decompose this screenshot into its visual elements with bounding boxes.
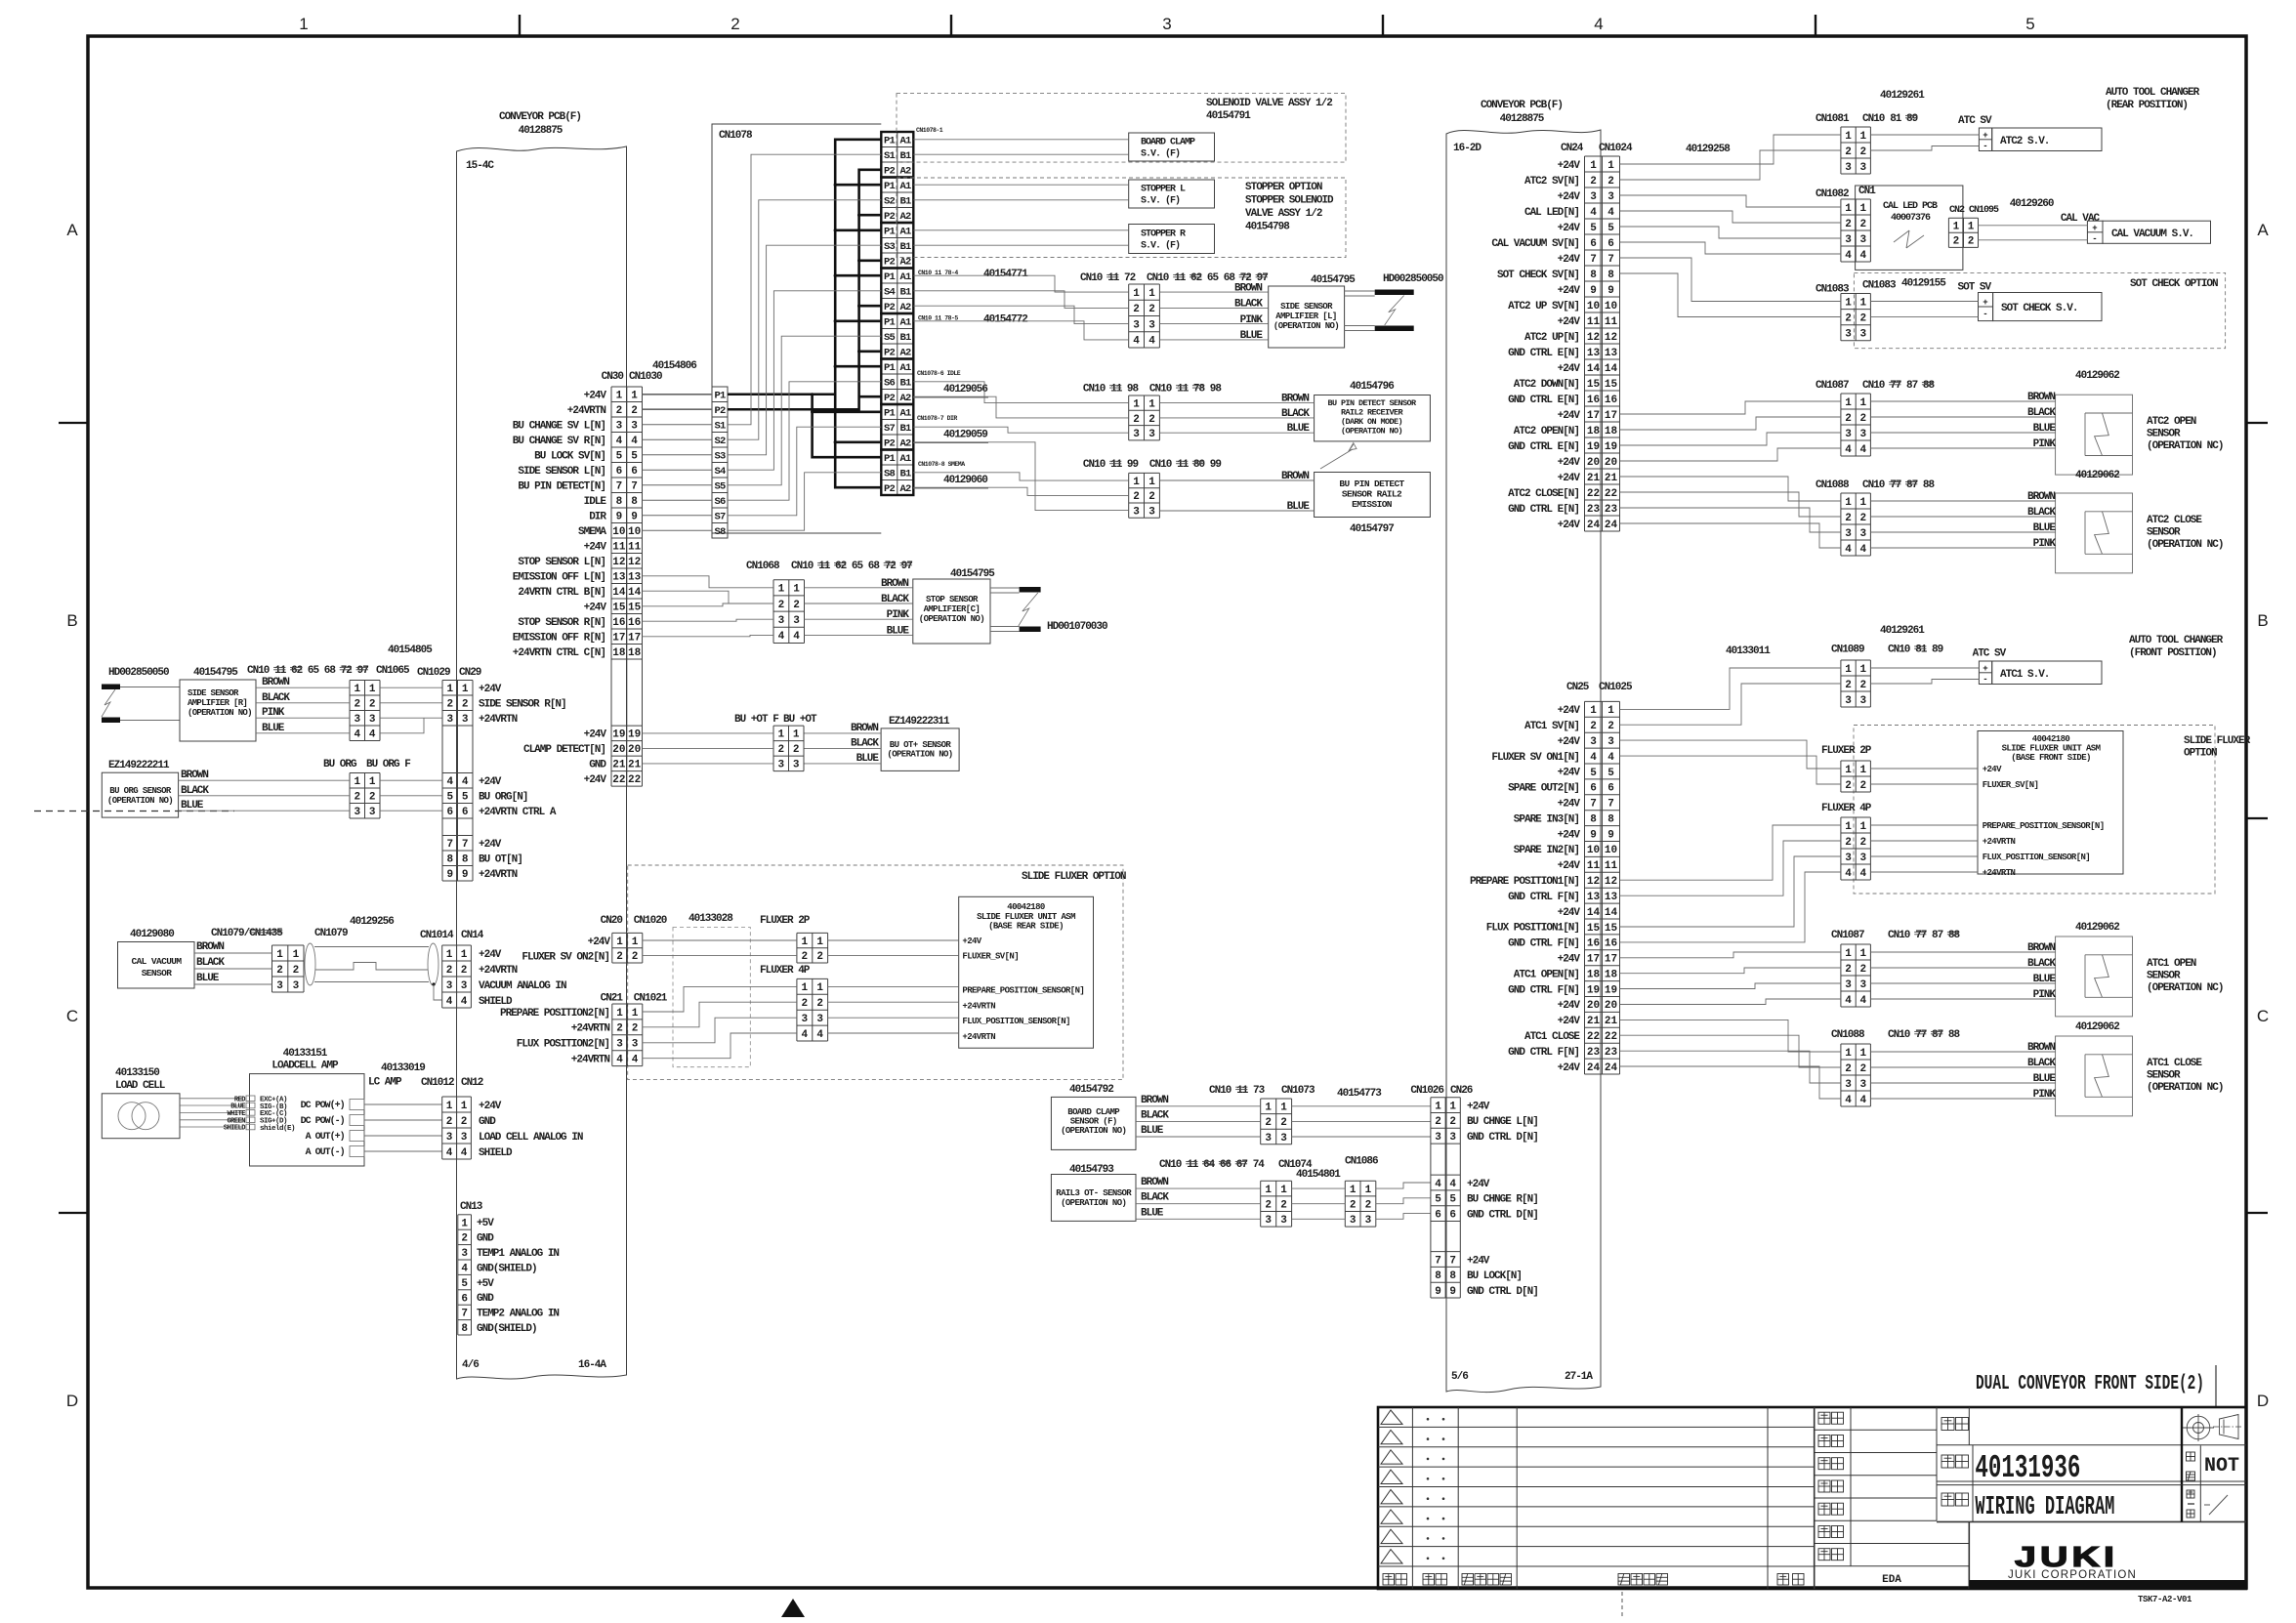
svg-text:+24V: +24V	[962, 936, 981, 946]
svg-text:15-4C: 15-4C	[466, 160, 494, 172]
svg-text:P1: P1	[884, 408, 896, 420]
svg-text:IDLE: IDLE	[584, 496, 607, 508]
svg-text:2: 2	[1859, 964, 1866, 976]
svg-text:68: 68	[324, 665, 337, 677]
ATC2 close sensor	[2056, 493, 2224, 573]
svg-text:CN1078-7 DIR: CN1078-7 DIR	[917, 415, 957, 422]
svg-text:CN10: CN10	[1149, 383, 1172, 395]
svg-text:5: 5	[631, 451, 638, 463]
svg-text:7: 7	[616, 481, 623, 493]
svg-text:40129059: 40129059	[943, 430, 987, 441]
connector CN1012 / CN12	[421, 1077, 583, 1159]
svg-text:BLACK: BLACK	[851, 737, 879, 749]
svg-text:3: 3	[1845, 853, 1852, 864]
svg-text:40129261: 40129261	[1880, 90, 1925, 102]
part name WIRING DIAGRAM	[1975, 1493, 2114, 1522]
svg-text:3: 3	[1133, 319, 1140, 331]
svg-text:A1: A1	[899, 362, 911, 374]
svg-text:3: 3	[1350, 1215, 1357, 1227]
svg-text:27-1A: 27-1A	[1565, 1371, 1593, 1383]
svg-text:A OUT(-): A OUT(-)	[306, 1146, 345, 1158]
connector CN2 / CN1095	[1948, 198, 2100, 248]
svg-text:6: 6	[616, 466, 623, 478]
svg-text:GND CTRL E[N]: GND CTRL E[N]	[1508, 348, 1579, 359]
svg-text:3: 3	[616, 1039, 623, 1051]
svg-text:2: 2	[1859, 1063, 1866, 1075]
svg-text:ATC SV: ATC SV	[1973, 648, 2007, 660]
JUKI logo	[1969, 1542, 2246, 1589]
svg-text:2: 2	[1859, 146, 1866, 158]
svg-text:CN1079/CN1435: CN1079/CN1435	[211, 928, 283, 939]
svg-text:9: 9	[1449, 1286, 1456, 1298]
svg-text:BU PIN DETECT SENSOR: BU PIN DETECT SENSOR	[1327, 398, 1417, 408]
label 40129062 ATC2 close	[2075, 470, 2119, 481]
svg-text:+24V: +24V	[1558, 860, 1581, 872]
bottom center fold marks	[781, 1592, 1622, 1618]
svg-text:+24VRTN CTRL A: +24VRTN CTRL A	[479, 807, 557, 818]
svg-text:40129260: 40129260	[2010, 198, 2054, 210]
svg-text:40129080: 40129080	[130, 929, 174, 940]
fluxer 2P connector front	[1821, 745, 1872, 792]
approval rows	[1815, 1407, 1970, 1566]
rail3 OT- sensor box	[1051, 1164, 1136, 1221]
svg-text:4: 4	[1859, 444, 1866, 456]
label 40129062 ATC1 close	[2075, 1021, 2119, 1033]
svg-text:13: 13	[1605, 892, 1618, 903]
svg-text:3: 3	[276, 980, 283, 992]
projection symbols	[2183, 1414, 2242, 1441]
BU ORG sensor box	[102, 760, 178, 817]
svg-text:1: 1	[616, 1008, 623, 1020]
svg-text:STOPPER L: STOPPER L	[1141, 185, 1186, 195]
svg-text:A2: A2	[899, 211, 911, 223]
svg-text:ATC1 CLOSE: ATC1 CLOSE	[2147, 1058, 2202, 1069]
wires CN30 rows to CN1068	[643, 576, 774, 637]
svg-text:6: 6	[462, 807, 469, 818]
svg-text:1: 1	[369, 776, 376, 788]
svg-text:ATC1 OPEN: ATC1 OPEN	[2147, 958, 2196, 970]
svg-text:9: 9	[1435, 1286, 1441, 1298]
connector CN1081	[1816, 113, 1992, 174]
svg-text:1: 1	[616, 391, 623, 402]
svg-text:2: 2	[1607, 176, 1614, 187]
svg-text:20: 20	[1605, 457, 1617, 469]
svg-text:SOT SV: SOT SV	[1958, 282, 1992, 294]
svg-text:5: 5	[616, 451, 623, 463]
svg-text:40154796: 40154796	[1350, 381, 1394, 393]
svg-text:22: 22	[1587, 1031, 1600, 1043]
svg-text:1: 1	[461, 1101, 468, 1112]
svg-text:CN1026: CN1026	[1410, 1085, 1443, 1097]
svg-text:RAIL3 OT- SENSOR: RAIL3 OT- SENSOR	[1056, 1188, 1132, 1198]
svg-text:B1: B1	[899, 287, 911, 299]
svg-text:LOAD CELL: LOAD CELL	[115, 1080, 166, 1092]
svg-text:40154806: 40154806	[652, 360, 696, 372]
svg-text:7: 7	[1435, 1255, 1441, 1267]
label 40129062 ATC2 open	[2075, 370, 2119, 382]
svg-text:PREPARE_POSITION_SENSOR[N]: PREPARE_POSITION_SENSOR[N]	[962, 985, 1084, 995]
svg-text:S.V. (F): S.V. (F)	[1141, 240, 1180, 252]
svg-text:40133019: 40133019	[381, 1062, 425, 1074]
wires CN24 to ATC2 valve and sensor connectors	[1620, 135, 1841, 548]
svg-text:13: 13	[1587, 892, 1601, 903]
svg-text:13: 13	[1605, 348, 1618, 359]
connector CN1086 table	[1345, 1181, 1376, 1227]
svg-text:S3: S3	[714, 451, 726, 463]
labels HD002850050 40154795 CN1065 header	[108, 665, 410, 679]
svg-text:EMISSION OFF R[N]: EMISSION OFF R[N]	[513, 633, 605, 645]
svg-text:40154792: 40154792	[1069, 1084, 1113, 1096]
svg-text:2: 2	[446, 1116, 453, 1128]
svg-text:SIDE SENSOR: SIDE SENSOR	[188, 688, 239, 698]
svg-text:GND: GND	[589, 760, 606, 771]
svg-text:GND CTRL E[N]: GND CTRL E[N]	[1508, 441, 1579, 453]
svg-text:2: 2	[1280, 1117, 1287, 1129]
svg-text:16: 16	[1605, 395, 1617, 406]
svg-text:6: 6	[461, 1293, 468, 1305]
svg-text:17: 17	[1587, 410, 1600, 422]
svg-text:P1: P1	[884, 181, 896, 192]
svg-text:4: 4	[461, 996, 468, 1008]
svg-text:4: 4	[446, 996, 453, 1008]
svg-text:2: 2	[1365, 1200, 1372, 1212]
svg-text:HD001070030: HD001070030	[1047, 621, 1107, 633]
svg-text:2: 2	[1859, 780, 1866, 792]
svg-text:PREPARE_POSITION_SENSOR[N]: PREPARE_POSITION_SENSOR[N]	[1983, 821, 2105, 831]
svg-text:SENSOR: SENSOR	[2147, 1070, 2181, 1082]
svg-text:15: 15	[1605, 379, 1618, 391]
svg-text:11: 11	[1107, 272, 1120, 284]
svg-text:11: 11	[1587, 316, 1601, 328]
label 40129261 ATC1	[1880, 625, 1925, 637]
svg-text:SENSOR: SENSOR	[142, 968, 173, 978]
svg-text:40154798: 40154798	[1245, 222, 1290, 233]
svg-text:GND CTRL F[N]: GND CTRL F[N]	[1508, 892, 1579, 903]
svg-text:PREPARE POSITION1[N]: PREPARE POSITION1[N]	[1470, 876, 1579, 888]
amp outputs to CN1012	[301, 1100, 442, 1159]
svg-text:2: 2	[1845, 219, 1852, 230]
svg-text:1: 1	[1845, 664, 1852, 676]
svg-text:OPTION: OPTION	[2184, 748, 2217, 760]
svg-text:18: 18	[1605, 426, 1618, 437]
svg-text:(OPERATION NO): (OPERATION NO)	[919, 614, 984, 624]
svg-text:P2: P2	[884, 302, 896, 313]
svg-text:40129062: 40129062	[2075, 470, 2119, 481]
BU pin detect sensor rail2 emission box	[1315, 473, 1431, 536]
bus junction dots	[811, 184, 860, 444]
svg-text:+24V: +24V	[1558, 160, 1581, 172]
svg-text:A2: A2	[899, 438, 911, 450]
svg-text:2: 2	[1265, 1200, 1272, 1212]
arrow between receiver and emission	[1320, 443, 1357, 470]
svg-text:CN26: CN26	[1450, 1085, 1473, 1097]
svg-text:3: 3	[369, 807, 376, 818]
svg-text:P2: P2	[884, 211, 896, 223]
connector CN1074 table	[1261, 1181, 1292, 1227]
svg-text:14: 14	[1605, 363, 1618, 375]
slide fluxer option dashed box rear	[628, 865, 1126, 1080]
svg-text:12: 12	[1605, 876, 1617, 888]
CAL vacuum sensor box	[118, 929, 195, 988]
svg-text:17: 17	[612, 633, 625, 645]
svg-text:+24V: +24V	[479, 949, 502, 961]
svg-text:BU CHANGE SV L[N]: BU CHANGE SV L[N]	[513, 421, 605, 433]
svg-text:15: 15	[1587, 379, 1601, 391]
svg-text:SIDE SENSOR R[N]: SIDE SENSOR R[N]	[479, 699, 566, 711]
svg-text:A1: A1	[899, 408, 911, 420]
svg-text:2: 2	[1449, 1116, 1456, 1128]
svg-text:9: 9	[462, 869, 469, 881]
svg-text:CN10: CN10	[1888, 930, 1910, 941]
svg-text:shield(E): shield(E)	[260, 1125, 295, 1133]
svg-text:2: 2	[354, 792, 360, 804]
svg-text:3: 3	[1859, 429, 1866, 440]
svg-text:40129062: 40129062	[2075, 370, 2119, 382]
svg-text:(OPERATION NC): (OPERATION NC)	[2147, 982, 2223, 994]
board clamp sensor F box	[1051, 1084, 1136, 1149]
connector CN1073 header	[1209, 1085, 1382, 1100]
svg-text:2: 2	[1859, 313, 1866, 325]
svg-text:1: 1	[1968, 222, 1975, 233]
svg-text:ATC2 UP[N]: ATC2 UP[N]	[1524, 332, 1579, 344]
svg-text:2: 2	[1148, 491, 1155, 503]
svg-text:3: 3	[801, 1014, 808, 1025]
load cell wires	[180, 1096, 295, 1133]
svg-text:A: A	[66, 221, 78, 239]
svg-text:BLACK: BLACK	[262, 692, 290, 704]
svg-text:3: 3	[1845, 528, 1852, 540]
svg-text:8: 8	[446, 854, 453, 866]
svg-text:11: 11	[274, 665, 287, 677]
svg-text:D: D	[66, 1392, 78, 1410]
wires CN1065 to CN1029	[380, 687, 442, 733]
svg-text:2: 2	[616, 405, 623, 417]
column labels and ticks	[299, 15, 2034, 38]
BU ORG / BU ORG F table	[323, 759, 410, 818]
svg-text:1: 1	[1607, 160, 1614, 172]
wires CN1068 to stop sensor amp	[805, 578, 913, 638]
svg-text:5: 5	[1607, 768, 1614, 779]
svg-text:81: 81	[1915, 645, 1928, 656]
svg-text:S5: S5	[714, 481, 726, 493]
svg-text:67: 67	[1236, 1159, 1248, 1171]
svg-text:2: 2	[1280, 1200, 1287, 1212]
svg-text:3: 3	[369, 714, 376, 726]
svg-text:5: 5	[1435, 1194, 1441, 1206]
svg-text:B: B	[66, 611, 77, 630]
svg-text:AMPLIFIER [R]: AMPLIFIER [R]	[188, 698, 247, 708]
svg-text:BLACK: BLACK	[196, 957, 225, 969]
svg-text:PREPARE POSITION2[N]: PREPARE POSITION2[N]	[500, 1008, 609, 1020]
svg-text:3: 3	[446, 1132, 453, 1144]
stopper R solenoid valve	[1129, 225, 1215, 254]
title block outer frame	[1378, 1407, 2246, 1589]
svg-text:+24V: +24V	[1558, 1062, 1581, 1074]
svg-text:16-2D: 16-2D	[1453, 143, 1482, 154]
svg-text:2: 2	[793, 600, 800, 611]
svg-text:+24V: +24V	[479, 684, 502, 695]
svg-text:1: 1	[354, 684, 360, 695]
svg-text:4: 4	[1590, 207, 1597, 219]
svg-text:62: 62	[835, 561, 847, 572]
svg-text:VACUUM ANALOG IN: VACUUM ANALOG IN	[479, 980, 566, 992]
svg-text:3: 3	[1435, 1132, 1441, 1144]
svg-text:5: 5	[462, 792, 469, 804]
svg-text:AUTO TOOL CHANGER: AUTO TOOL CHANGER	[2106, 87, 2200, 99]
svg-text:+24V: +24V	[1558, 705, 1581, 717]
svg-text:1: 1	[1845, 297, 1852, 309]
svg-text:40129062: 40129062	[2075, 1021, 2119, 1033]
connector CN1014 / CN14	[420, 930, 566, 1008]
svg-text:2: 2	[446, 965, 453, 977]
svg-text:P1: P1	[884, 362, 896, 374]
svg-text:BU ORG[N]: BU ORG[N]	[479, 792, 527, 804]
svg-text:+: +	[1983, 298, 1987, 308]
svg-text:A2: A2	[899, 483, 911, 495]
connector CN1068 header	[746, 561, 995, 580]
svg-text:3: 3	[1590, 191, 1597, 203]
svg-text:+24V: +24V	[1558, 1016, 1581, 1027]
svg-text:11: 11	[612, 542, 626, 554]
svg-text:1: 1	[1845, 497, 1852, 509]
svg-text:CAL VACUUM S.V.: CAL VACUUM S.V.	[2111, 229, 2193, 240]
svg-text:CN1024: CN1024	[1599, 143, 1633, 154]
svg-text:9: 9	[1590, 829, 1597, 841]
svg-text:3: 3	[631, 421, 638, 433]
svg-text:11: 11	[1174, 272, 1187, 284]
svg-text:CN10: CN10	[1147, 272, 1169, 284]
svg-text:-: -	[2092, 234, 2097, 244]
left conveyor PCB block 40128875	[457, 111, 627, 1379]
svg-text:6: 6	[1435, 1209, 1441, 1221]
svg-text:3: 3	[1607, 736, 1614, 748]
svg-text:10: 10	[612, 526, 625, 538]
svg-text:+24V: +24V	[584, 774, 607, 786]
svg-text:S.V. (F): S.V. (F)	[1141, 195, 1180, 207]
svg-text:6: 6	[1607, 783, 1614, 795]
svg-text:87: 87	[1906, 479, 1918, 491]
svg-text:P1: P1	[884, 271, 896, 283]
svg-text:STOPPER OPTION: STOPPER OPTION	[1245, 182, 1322, 193]
connector CN1026 / CN26	[1410, 1085, 1537, 1298]
svg-text:SOT CHECK OPTION: SOT CHECK OPTION	[2130, 278, 2218, 290]
svg-text:C: C	[2257, 1007, 2269, 1025]
svg-text:12: 12	[628, 557, 641, 568]
svg-text:11: 11	[1605, 860, 1618, 872]
svg-text:CN21: CN21	[601, 993, 624, 1005]
svg-text:9: 9	[631, 512, 638, 523]
svg-text:1: 1	[816, 936, 823, 948]
svg-text:40129060: 40129060	[943, 475, 987, 486]
svg-text:5: 5	[446, 792, 453, 804]
svg-text:5: 5	[461, 1278, 468, 1290]
svg-text:(OPERATION NC): (OPERATION NC)	[2147, 440, 2223, 452]
connector CN1088 ATC2	[1816, 479, 1936, 556]
svg-text:EMISSION: EMISSION	[1352, 499, 1393, 510]
svg-text:5: 5	[1607, 223, 1614, 234]
svg-text:15: 15	[1587, 923, 1601, 935]
svg-text:A OUT(+): A OUT(+)	[306, 1131, 345, 1143]
svg-text:2: 2	[462, 699, 469, 711]
svg-text:CN10: CN10	[1862, 113, 1885, 125]
svg-text:4: 4	[1133, 336, 1140, 348]
svg-text:BLUE: BLUE	[1141, 1125, 1164, 1137]
svg-text:CN1087: CN1087	[1831, 930, 1864, 941]
svg-text:2: 2	[1148, 414, 1155, 426]
connector CN10-98 table	[1129, 395, 1160, 440]
svg-text:P2: P2	[884, 166, 896, 178]
svg-text:1: 1	[1845, 948, 1852, 960]
svg-text:40154801: 40154801	[1296, 1169, 1341, 1181]
wires rail3 sensor chain	[1136, 1177, 1431, 1219]
svg-text:GND(SHIELD): GND(SHIELD)	[477, 1263, 537, 1274]
connector CN1087 ATC2	[1816, 380, 1936, 456]
svg-text:3: 3	[446, 714, 453, 726]
svg-text:CN14: CN14	[461, 930, 484, 941]
ATC2 SV valve box	[1979, 128, 2102, 151]
connector CN1029 / CN29	[388, 645, 566, 881]
svg-text:10: 10	[628, 526, 641, 538]
cable 40129256 drawing	[305, 943, 442, 1000]
svg-text:9: 9	[616, 512, 623, 523]
svg-text:-: -	[1983, 675, 1987, 685]
svg-text:SLIDE FLUXER OPTION: SLIDE FLUXER OPTION	[1022, 871, 1126, 883]
svg-text:1: 1	[1859, 131, 1866, 143]
svg-text:1: 1	[616, 936, 623, 948]
svg-text:2: 2	[1968, 236, 1975, 248]
svg-text:SPARE IN3[N]: SPARE IN3[N]	[1514, 813, 1579, 825]
svg-text:BROWN: BROWN	[196, 941, 224, 953]
svg-text:87: 87	[1932, 930, 1943, 941]
svg-text:BOARD CLAMP: BOARD CLAMP	[1141, 138, 1195, 148]
svg-text:88: 88	[1948, 930, 1961, 941]
svg-text:+24VRTN: +24VRTN	[962, 1001, 995, 1011]
svg-text:4: 4	[801, 1029, 808, 1041]
svg-text:B1: B1	[899, 469, 911, 480]
svg-text:22: 22	[1605, 1031, 1617, 1043]
svg-text:BU PIN DETECT: BU PIN DETECT	[1339, 479, 1404, 489]
stopper L solenoid valve	[1129, 180, 1215, 208]
svg-text:ATC1 CLOSE: ATC1 CLOSE	[1524, 1031, 1580, 1043]
connector CN1087 ATC1	[1831, 930, 1961, 1007]
svg-text:2: 2	[1350, 1200, 1357, 1212]
svg-text:11: 11	[1236, 1085, 1249, 1097]
svg-text:+24V: +24V	[479, 1101, 502, 1112]
svg-text:18: 18	[1587, 970, 1601, 981]
svg-text:1: 1	[446, 949, 453, 961]
connector CN1088 ATC1	[1831, 1029, 1961, 1106]
svg-text:11: 11	[1605, 316, 1618, 328]
connector HD001070030	[1019, 587, 1107, 633]
svg-text:SOLENOID VALVE ASSY 1/2: SOLENOID VALVE ASSY 1/2	[1206, 98, 1332, 109]
svg-text:(OPERATION NO): (OPERATION NO)	[1061, 1126, 1126, 1136]
svg-text:GND(SHIELD): GND(SHIELD)	[477, 1323, 537, 1335]
svg-text:1: 1	[293, 949, 300, 961]
svg-text:P2: P2	[884, 257, 896, 269]
svg-text:11: 11	[1177, 459, 1190, 471]
svg-text:10: 10	[1587, 845, 1600, 856]
svg-text:+24V: +24V	[1467, 1179, 1490, 1190]
connector CN24 / CN1024	[1491, 143, 1731, 531]
load cell box	[102, 1067, 180, 1139]
svg-text:CAL VACUUM: CAL VACUUM	[131, 956, 182, 967]
svg-text:CN10: CN10	[1862, 479, 1885, 491]
svg-text:CN24: CN24	[1561, 143, 1584, 154]
svg-text:TSK7-A2-V01: TSK7-A2-V01	[2138, 1595, 2192, 1604]
svg-text:3: 3	[1148, 319, 1155, 331]
svg-text:A2: A2	[899, 166, 911, 178]
BU OT+ sensor box	[881, 716, 959, 770]
